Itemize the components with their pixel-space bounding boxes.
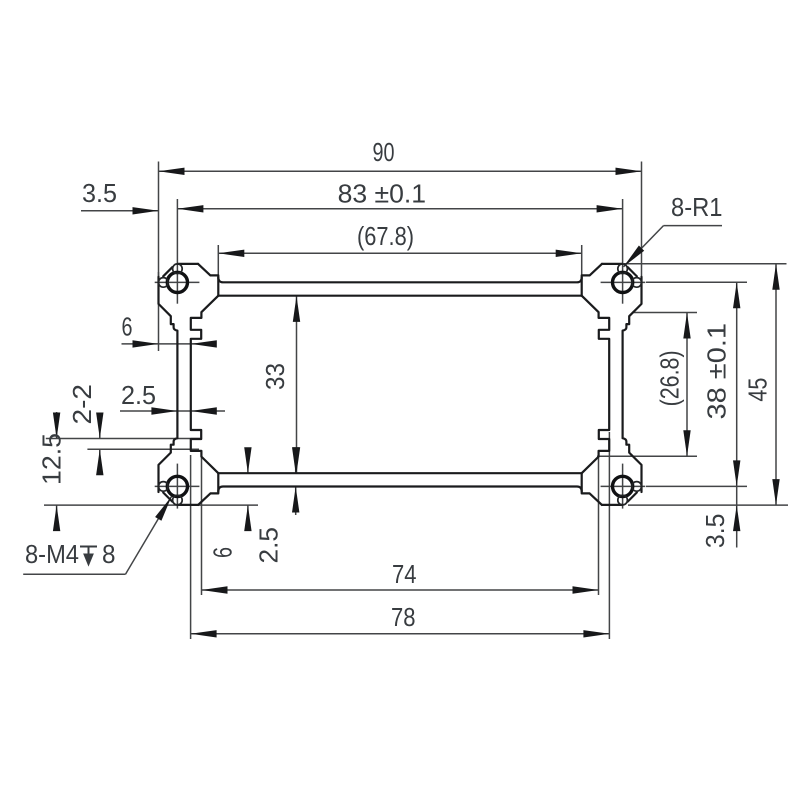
arrow 3.5 right bottom — [733, 505, 740, 531]
top-left boss top edge — [177, 263, 198, 265]
dim 38 and 3.5 — [736, 282, 738, 547]
svg-text:33: 33 — [262, 363, 290, 390]
ext 38 top — [646, 281, 747, 283]
R1 groove marker 1 — [173, 264, 183, 274]
top face right step and slit — [582, 264, 602, 296]
centerline bottom-left hole vertical — [176, 464, 178, 509]
bottom wall inner surface — [218, 472, 581, 474]
dim 2-2 lower tail — [99, 449, 101, 472]
ext 90 left — [158, 162, 160, 278]
top wall outer surface — [218, 278, 581, 283]
arrow 74 left — [202, 586, 228, 593]
M4 screw hole bottom-left — [167, 476, 187, 496]
svg-text:45: 45 — [745, 378, 773, 402]
ext 45 bottom — [628, 504, 788, 506]
dim 6 bottom lower tail — [247, 505, 249, 529]
arrow 45 top — [772, 264, 779, 290]
svg-text:6: 6 — [210, 547, 238, 558]
R1 drill markers — [159, 264, 642, 505]
ext 90 right — [641, 162, 643, 278]
arrow 78 left — [191, 630, 217, 637]
bottom face right step and slit — [582, 473, 602, 505]
arrow 45 bottom — [772, 479, 779, 505]
arrow 33 top — [293, 296, 300, 322]
R1 groove marker 8 — [632, 482, 642, 492]
R1 groove marker 6 — [159, 482, 169, 492]
dim 33 — [296, 296, 298, 473]
bottom-right boss bottom edge — [602, 504, 623, 506]
centerline bottom-left hole horizontal — [155, 485, 200, 487]
arrow 38 top — [733, 282, 740, 308]
svg-text:8-M4: 8-M4 — [25, 541, 79, 569]
arrow 6 bottom outer — [244, 505, 251, 531]
arrow 38 bottom — [733, 460, 740, 486]
dim 78 — [191, 633, 610, 635]
ext bottom edge left — [44, 504, 258, 506]
dim 6 left — [122, 343, 215, 345]
M4 screw hole top-left — [167, 272, 187, 292]
R1 groove marker 5 — [173, 495, 183, 505]
R1 groove marker 2 — [159, 278, 169, 288]
arrow 67.8 left — [218, 250, 244, 257]
dim 6 bottom upper tail — [247, 449, 249, 473]
centerline bottom-right hole vertical — [622, 464, 624, 509]
ext 6 left — [158, 272, 160, 351]
svg-text:2.5: 2.5 — [256, 527, 284, 564]
svg-text:8-R1: 8-R1 — [671, 194, 723, 222]
svg-text:83 ±0.1: 83 ±0.1 — [338, 181, 427, 209]
ext 78 right — [608, 432, 610, 639]
arrow 67.8 right — [556, 250, 582, 257]
dim 90 — [159, 170, 642, 172]
arrow 6 bottom inner — [244, 447, 251, 473]
right wall inner surface with rib tabs — [582, 296, 610, 474]
ext 78 left — [190, 455, 192, 639]
top-right boss top edge — [602, 263, 623, 265]
centerline top-left hole horizontal — [155, 281, 200, 283]
top-right boss corner chamfer — [628, 267, 637, 276]
dim 3.5 top-left — [81, 210, 159, 212]
ext 26.8 top — [632, 312, 697, 314]
dim 2.5 bottom lower tail — [295, 487, 297, 516]
dim 74 — [202, 589, 599, 591]
svg-text:74: 74 — [392, 561, 417, 589]
top wall inner surface — [218, 295, 581, 297]
ext 67.8 right — [581, 245, 583, 276]
dim 26.8 — [686, 313, 688, 457]
centerline top-right hole horizontal — [601, 281, 646, 283]
arrow 2.5 bottom wall inner — [292, 447, 299, 473]
leader arrow 8-R1 — [624, 246, 645, 267]
right outer wall with corner bosses — [623, 277, 642, 492]
leader 8-R1 — [624, 226, 664, 267]
svg-text:3.5: 3.5 — [82, 180, 117, 208]
arrow 2.5 left wall outer — [151, 407, 177, 414]
M4 screw hole top-right — [613, 272, 633, 292]
leader arrow 8-M4 — [155, 497, 171, 521]
centerline top-left hole vertical — [176, 199, 178, 304]
arrow 83 left — [177, 205, 203, 212]
centerline top-right hole vertical — [622, 199, 624, 304]
arrow 90 left — [159, 168, 185, 175]
arrow 2.5 bottom wall outer — [292, 487, 299, 513]
arrow 33 bottom — [293, 447, 300, 473]
left outer wall with corner bosses — [159, 277, 178, 492]
dim 67.8 — [218, 252, 581, 254]
arrow 26.8 top — [683, 313, 690, 339]
arrow 90 right — [616, 168, 642, 175]
svg-text:2-2: 2-2 — [69, 384, 97, 425]
top-left boss corner chamfer — [163, 267, 172, 276]
dim 12.5 lower tail — [56, 505, 58, 531]
screw holes M4 — [167, 272, 632, 496]
arrow 26.8 bottom — [683, 430, 690, 456]
arrow 2-2 top — [96, 413, 103, 439]
arrow 3.5 top-left — [133, 207, 159, 214]
bottom wall outer surface — [218, 487, 581, 492]
top face left step and slit — [198, 264, 218, 296]
arrow 74 right — [573, 586, 599, 593]
ext 74 right — [598, 452, 600, 595]
svg-text:38 ±0.1: 38 ±0.1 — [704, 323, 732, 420]
ext 45 top — [624, 263, 787, 265]
arrow 6 left at 158.5 — [133, 340, 159, 347]
arrow 6 left at wall — [191, 340, 217, 347]
leader 8-R1 shelf — [664, 225, 723, 227]
svg-text:12.5: 12.5 — [39, 433, 67, 485]
leader 8-M4 — [126, 497, 172, 575]
svg-text:8: 8 — [102, 541, 116, 569]
dim 45 — [775, 264, 777, 505]
dim 83 — [177, 208, 622, 210]
svg-text:6: 6 — [122, 314, 133, 342]
bottom-left boss corner chamfer — [163, 493, 172, 502]
arrow 2.5 left wall inner — [191, 407, 217, 414]
ext 74 left — [201, 452, 203, 595]
dim 2-2 upper tail — [99, 424, 101, 439]
R1 groove marker 4 — [632, 278, 642, 288]
svg-text:(26.8): (26.8) — [657, 350, 685, 406]
R1 groove marker 3 — [618, 264, 628, 274]
svg-text:78: 78 — [391, 604, 416, 632]
svg-text:(67.8): (67.8) — [357, 223, 414, 251]
arrow 2-2 bottom — [96, 449, 103, 475]
arrow 83 right — [597, 205, 623, 212]
svg-text:2.5: 2.5 — [121, 382, 156, 410]
ext 12.5 top — [46, 438, 200, 440]
svg-text:90: 90 — [373, 139, 395, 167]
ext 2-2 lower — [87, 448, 199, 450]
arrow 12.5 bottom — [53, 505, 60, 531]
leader 8-M4 shelf — [23, 573, 125, 575]
R1 groove marker 7 — [618, 495, 628, 505]
dim 12.5 upper tail — [56, 412, 58, 439]
ext 67.8 left — [217, 245, 219, 276]
left wall inner surface with rib tabs — [191, 296, 219, 474]
arrow 12.5 top — [53, 413, 60, 439]
bottom face left step and slit — [198, 473, 218, 505]
arrow 78 right — [583, 630, 609, 637]
dim 2.5 left wall — [120, 410, 225, 412]
bottom-right boss corner chamfer — [628, 493, 637, 502]
svg-text:3.5: 3.5 — [702, 514, 730, 549]
M4 screw hole bottom-right — [613, 476, 633, 496]
counterbore-depth symbol in 8-M4 label — [80, 547, 97, 565]
ext 26.8 bottom — [597, 455, 697, 457]
bottom-left boss bottom edge — [177, 504, 198, 506]
dim 2.5 bottom upper tail — [295, 449, 297, 473]
ext 38 bottom — [646, 485, 747, 487]
centerline bottom-right hole horizontal — [601, 485, 646, 487]
